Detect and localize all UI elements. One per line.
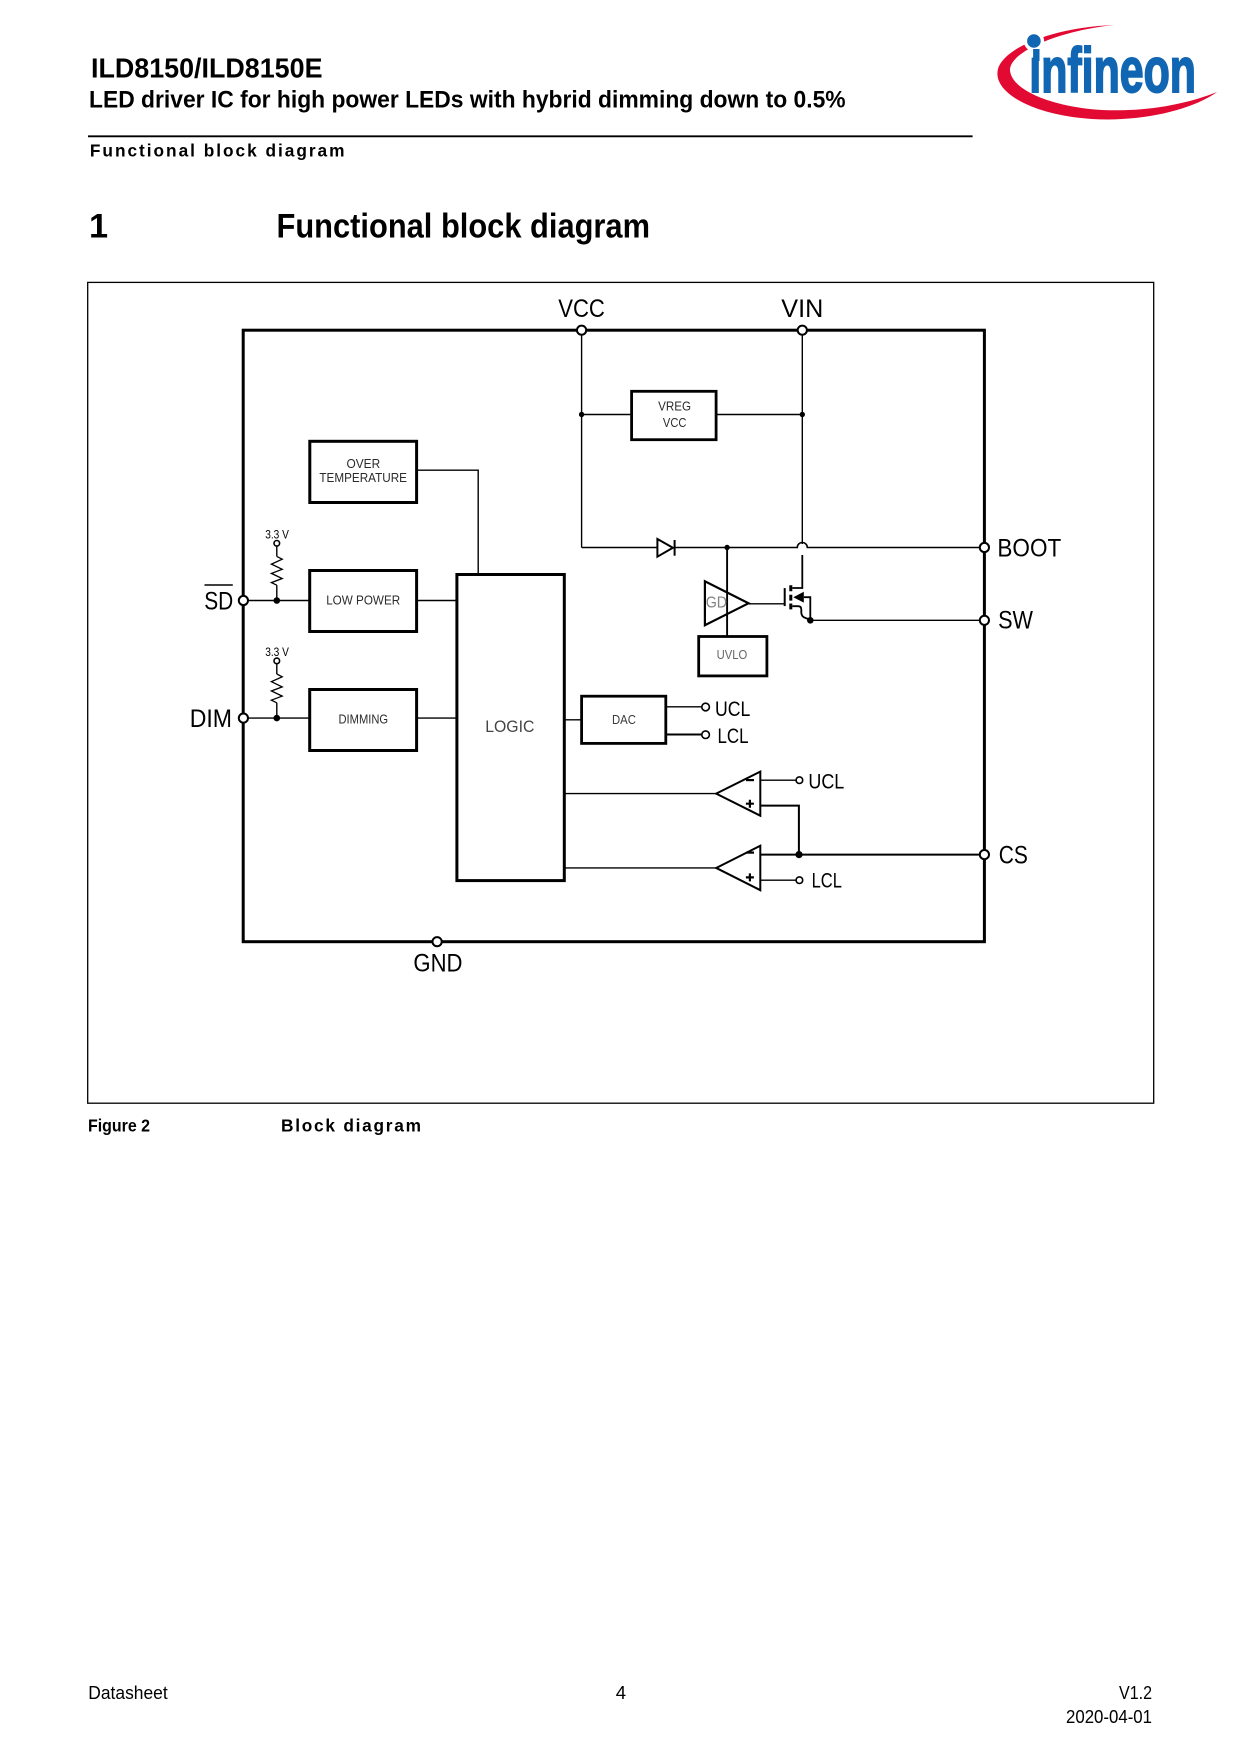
svg-text:Functional block diagram: Functional block diagram: [90, 141, 345, 161]
svg-text:GD: GD: [706, 595, 727, 612]
svg-text:VIN: VIN: [781, 295, 823, 323]
svg-text:2020-04-01: 2020-04-01: [1066, 1706, 1152, 1727]
svg-text:VREG: VREG: [658, 399, 691, 414]
svg-text:V1.2: V1.2: [1119, 1682, 1152, 1703]
svg-text:TEMPERATURE: TEMPERATURE: [319, 470, 407, 485]
svg-text:LED driver IC for high power L: LED driver IC for high power LEDs with h…: [89, 87, 846, 114]
svg-text:CS: CS: [999, 842, 1028, 870]
svg-text:Figure 2: Figure 2: [88, 1116, 150, 1136]
svg-text:3.3 V: 3.3 V: [265, 645, 289, 659]
svg-text:VCC: VCC: [558, 295, 605, 323]
svg-text:DIMMING: DIMMING: [339, 712, 389, 727]
svg-text:1: 1: [89, 208, 108, 246]
svg-text:UVLO: UVLO: [717, 647, 748, 662]
svg-text:ILD8150/ILD8150E: ILD8150/ILD8150E: [91, 53, 323, 84]
svg-text:VCC: VCC: [663, 415, 687, 430]
svg-text:3.3 V: 3.3 V: [265, 528, 289, 542]
svg-text:GND: GND: [413, 950, 462, 978]
svg-text:UCL: UCL: [808, 770, 844, 793]
svg-text:LOGIC: LOGIC: [485, 717, 534, 736]
svg-text:ınfineon: ınfineon: [1029, 36, 1196, 107]
svg-text:UCL: UCL: [715, 698, 750, 721]
svg-text:SW: SW: [998, 607, 1033, 635]
svg-text:SD: SD: [204, 588, 233, 616]
svg-text:BOOT: BOOT: [997, 534, 1061, 562]
svg-text:Datasheet: Datasheet: [88, 1682, 167, 1703]
svg-text:LCL: LCL: [812, 870, 842, 893]
svg-text:LCL: LCL: [718, 725, 749, 748]
svg-text:DIM: DIM: [190, 705, 232, 733]
svg-text:Functional block diagram: Functional block diagram: [277, 208, 651, 246]
svg-text:DAC: DAC: [612, 712, 636, 727]
svg-text:OVER: OVER: [347, 456, 381, 471]
svg-text:Block diagram: Block diagram: [281, 1116, 421, 1136]
svg-text:LOW POWER: LOW POWER: [326, 593, 400, 608]
svg-text:4: 4: [616, 1682, 626, 1703]
